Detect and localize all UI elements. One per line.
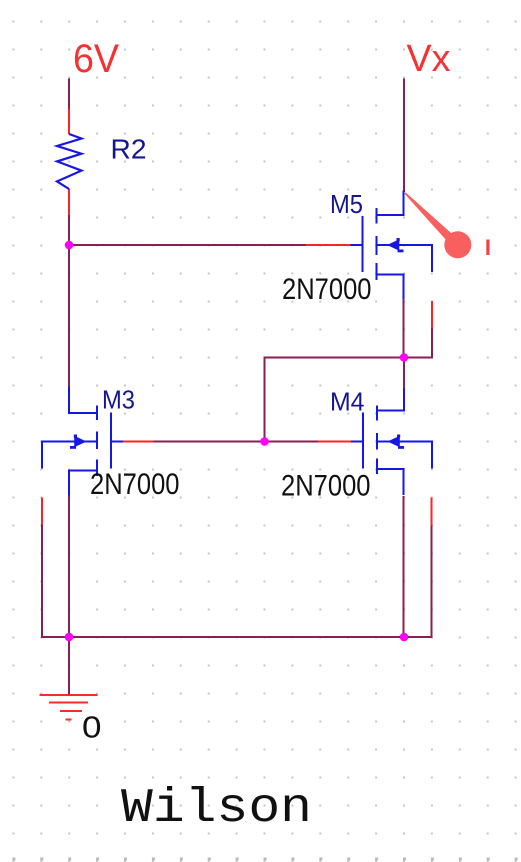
junction ground rail right	[400, 633, 409, 642]
junction node C	[260, 437, 269, 446]
pin M3 body	[41, 498, 43, 525]
M5 source lead	[377, 275, 404, 300]
svg-text:M5: M5	[330, 189, 363, 219]
transistor M4	[351, 388, 432, 495]
M4 channel segments	[376, 406, 378, 475]
M3 body arrow	[74, 436, 86, 448]
M3 body lead	[42, 442, 97, 469]
M5 drain lead	[377, 191, 404, 216]
wire M5 body down and corner	[404, 328, 432, 358]
wire node A to M5 gate	[69, 244, 306, 246]
resistor R2	[57, 134, 147, 190]
wire node C to M4 gate	[265, 441, 319, 443]
wire 6V to R2	[68, 79, 70, 111]
M4 drain lead	[377, 388, 404, 411]
wire node C to M3 gate	[154, 441, 265, 443]
M3 drain lead	[69, 387, 97, 414]
svg-text:Wilson: Wilson	[121, 782, 312, 836]
wire M3 source down	[68, 495, 70, 637]
M5 channel segments	[375, 208, 377, 280]
svg-text:0: 0	[82, 710, 102, 745]
junction node A	[65, 241, 74, 250]
svg-text:2N7000: 2N7000	[282, 273, 372, 306]
M3 gate bar	[110, 413, 112, 469]
wire M5 source down	[403, 298, 405, 358]
transistor M3	[42, 387, 123, 496]
probe I	[404, 192, 489, 258]
M5 body lead	[377, 245, 433, 272]
pin M4 body	[431, 498, 433, 526]
M3 channel segments	[96, 406, 98, 477]
svg-text:M3: M3	[102, 385, 135, 415]
wire ground rail	[69, 636, 404, 638]
M4 body lead	[377, 442, 432, 469]
pin M4 gate	[318, 441, 351, 443]
M4 gate lead	[351, 440, 363, 442]
M5 gate lead	[351, 244, 363, 246]
wire M3 body down and corner	[42, 525, 69, 638]
pin M5 gate	[306, 244, 351, 246]
transistor M5	[351, 191, 433, 300]
M4 body arrow	[388, 436, 400, 448]
M5 body arrow	[387, 239, 399, 251]
svg-text:2N7000: 2N7000	[90, 468, 180, 501]
wire node B across to node C	[265, 358, 405, 443]
svg-text:2N7000: 2N7000	[281, 470, 371, 503]
M4 source lead	[377, 469, 404, 495]
wire R2 to node A and M3 drain	[68, 215, 70, 387]
pin R2 bottom	[68, 189, 70, 215]
svg-text:M4: M4	[330, 387, 365, 417]
wire M4 body down and corner	[404, 526, 432, 638]
M5 gate bar	[361, 216, 363, 272]
junction ground rail left	[65, 633, 74, 642]
junction node B	[400, 353, 409, 362]
wire Vx to M5 drain	[403, 79, 405, 193]
pin R2 top	[68, 109, 70, 134]
M3 source lead	[69, 471, 97, 496]
M4 gate bar	[362, 413, 364, 469]
ground	[40, 695, 98, 720]
svg-text:6V: 6V	[73, 37, 119, 81]
svg-text:Vx: Vx	[407, 38, 451, 80]
svg-text:R2: R2	[111, 134, 147, 165]
wire ground stub	[68, 637, 70, 695]
pin M5 body	[431, 301, 433, 328]
wire node B to M4 drain	[403, 358, 405, 391]
wire M4 source down	[403, 496, 405, 637]
M3 gate lead	[111, 440, 123, 442]
pin M3 gate	[123, 441, 154, 443]
